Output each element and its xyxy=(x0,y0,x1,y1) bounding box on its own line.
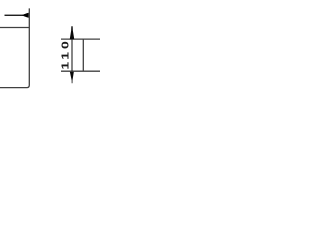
svg-text:110: 110 xyxy=(60,38,72,69)
